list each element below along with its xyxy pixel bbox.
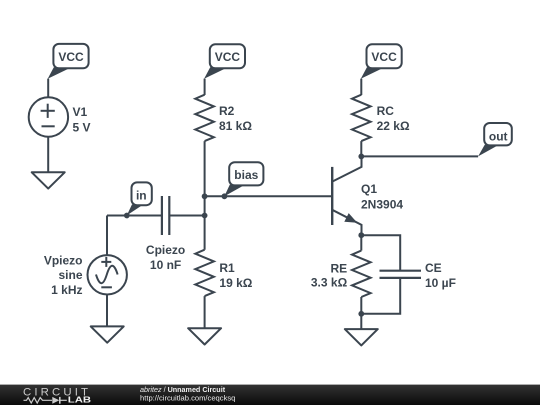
wire Cpiezo right to bias branch (169, 215, 204, 217)
voltage source Vpiezo (sine) (88, 255, 127, 294)
wire bias node to Q1 base (205, 195, 333, 197)
svg-text:VCC: VCC (215, 50, 241, 64)
wire in node to Cpiezo left (107, 215, 162, 217)
resistor R1 (195, 250, 214, 296)
label V1 5 V (73, 105, 91, 135)
net flag out (478, 123, 512, 156)
svg-text:sine: sine (58, 268, 82, 282)
svg-text:2N3904: 2N3904 (361, 198, 403, 212)
svg-text:Cpiezo: Cpiezo (146, 243, 185, 257)
wire Vpiezo bottom to ground (106, 295, 108, 327)
transistor Q1 2N3904 (332, 156, 361, 235)
resistor RE (352, 251, 371, 297)
svg-text:LAB: LAB (68, 396, 92, 405)
svg-text:bias: bias (234, 168, 258, 182)
svg-text:R1: R1 (219, 261, 235, 275)
wire V1 bottom to ground (47, 137, 49, 173)
capacitor Cpiezo (162, 196, 169, 235)
power flag VCC (above RC) (361, 44, 402, 79)
svg-text:Vpiezo: Vpiezo (44, 254, 83, 268)
capacitor CE (380, 271, 422, 278)
svg-text:5 V: 5 V (73, 120, 91, 134)
svg-text:10 µF: 10 µF (425, 276, 456, 290)
wire VCC flag 1 to V1 top (47, 79, 49, 98)
svg-text:VCC: VCC (58, 50, 84, 64)
voltage source V1 (29, 97, 68, 136)
svg-text:3.3 kΩ: 3.3 kΩ (311, 276, 348, 290)
ground (under RE) (345, 329, 378, 345)
wire RE bottom node to ground (360, 314, 362, 330)
svg-text:19 kΩ: 19 kΩ (219, 276, 252, 290)
label Cpiezo 10 nF (146, 243, 185, 272)
label RC 22 kOhm (377, 104, 410, 133)
svg-text:abritez / Unnamed Circuit: abritez / Unnamed Circuit (140, 385, 226, 394)
resistor RC (352, 95, 371, 141)
node bias junction dot (202, 193, 208, 199)
node emitter junction dot (358, 232, 364, 238)
wire emitter node to CE top (361, 235, 400, 270)
label RE 3.3 kOhm (311, 261, 348, 289)
label Vpiezo sine 1 kHz (44, 254, 83, 297)
label CE 10 uF (425, 261, 456, 290)
wire R2 bottom to R1 top (through bias and cap nodes) (204, 141, 206, 250)
wire R1 bottom to ground (204, 296, 206, 328)
svg-text:RE: RE (331, 261, 348, 275)
label R2 81 kOhm (219, 104, 252, 133)
power flag VCC (above R2) (204, 44, 245, 79)
svg-text:10 nF: 10 nF (150, 258, 181, 272)
resistor R2 (195, 95, 214, 141)
power flag VCC (left, above V1) (48, 44, 89, 79)
svg-text:V1: V1 (73, 105, 88, 119)
net flag bias (222, 162, 264, 199)
svg-text:CE: CE (425, 261, 442, 275)
label Q1 2N3904 (361, 182, 403, 212)
node RE bottom junction dot (358, 311, 364, 317)
svg-text:RC: RC (377, 104, 395, 118)
svg-text:R2: R2 (219, 104, 235, 118)
wire RC bottom to collector node (360, 141, 362, 156)
node collector junction dot (358, 154, 364, 160)
wire in node down to Vpiezo top (106, 216, 108, 256)
ground (under R1) (188, 328, 221, 344)
ground (under V1) (32, 172, 65, 188)
wire collector node to out flag (361, 155, 478, 157)
svg-text:out: out (489, 130, 508, 144)
svg-text:81 kΩ: 81 kΩ (219, 119, 252, 133)
wire VCC flag 3 to RC top (360, 79, 362, 95)
svg-text:Q1: Q1 (361, 182, 377, 196)
svg-text:1 kHz: 1 kHz (51, 283, 82, 297)
wire emitter node to RE top (360, 235, 362, 250)
svg-text:in: in (136, 188, 147, 202)
wire RE bottom to emitter ground node (360, 297, 362, 314)
node cap junction dot (202, 213, 208, 219)
logo resistor-diode glyph (24, 397, 67, 404)
svg-text:22 kΩ: 22 kΩ (377, 119, 410, 133)
wire CE bottom to RE bottom node (361, 278, 400, 314)
ground (under Vpiezo) (91, 326, 124, 342)
net flag in (124, 182, 152, 218)
label R1 19 kOhm (219, 261, 252, 290)
svg-text:VCC: VCC (371, 50, 397, 64)
wire VCC flag 2 to R2 top (204, 79, 206, 95)
svg-text:http://circuitlab.com/ceqcksq: http://circuitlab.com/ceqcksq (140, 394, 235, 403)
